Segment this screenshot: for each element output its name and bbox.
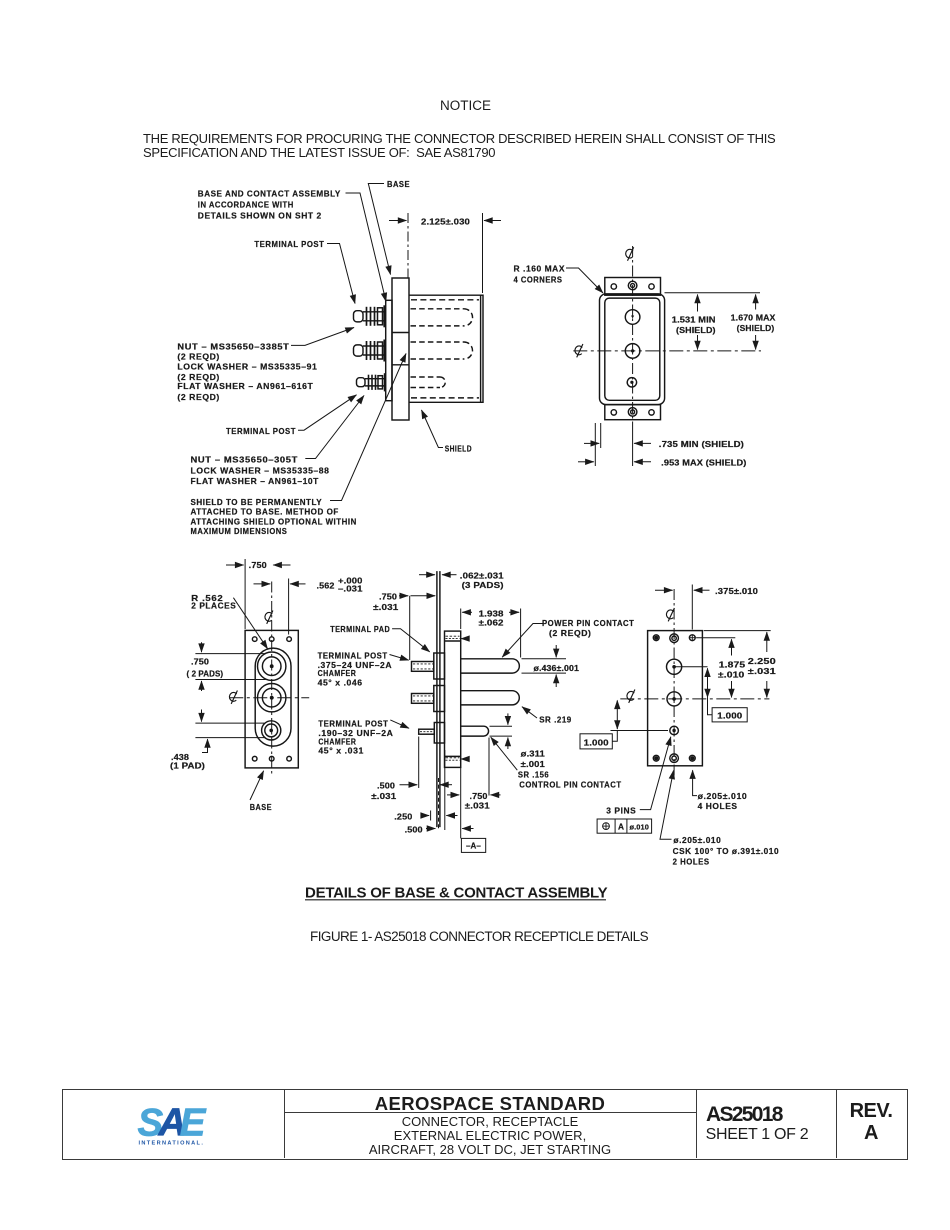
svg-text:SR .219: SR .219	[539, 715, 572, 725]
svg-text:.750: .750	[191, 656, 209, 666]
base plate (section, thin)	[436, 571, 438, 827]
leader power pin contact	[502, 624, 543, 658]
AS25018 cell	[706, 1103, 782, 1127]
dim ø.311	[490, 713, 513, 749]
svg-text:E: E	[180, 1101, 207, 1144]
leader terminal pad	[392, 629, 430, 652]
terminal post 2 stub (threaded)	[412, 694, 434, 704]
svg-text:MAXIMUM DIMENSIONS: MAXIMUM DIMENSIONS	[191, 526, 288, 536]
dim .750 top (base view)	[226, 559, 291, 629]
leader: BASE	[368, 184, 390, 275]
svg-text:–A–: –A–	[466, 840, 481, 850]
dim 1.000 left (boxed)	[580, 700, 668, 748]
svg-text:ø.205±.010: ø.205±.010	[673, 835, 721, 845]
control pin contact	[461, 726, 489, 736]
dim .500 (bottom)	[426, 828, 474, 830]
ear top	[605, 278, 661, 296]
svg-text:±.031: ±.031	[373, 602, 399, 612]
svg-text:.375±.010: .375±.010	[715, 586, 758, 596]
leader terminal post .190	[390, 720, 409, 728]
power pin contact 1	[461, 659, 520, 673]
svg-text:.953 MAX (SHIELD): .953 MAX (SHIELD)	[661, 458, 746, 468]
dim .250	[421, 750, 458, 830]
svg-text:ø.311: ø.311	[521, 748, 546, 758]
CL symbol left (back view)	[627, 690, 635, 703]
back pin 2	[667, 692, 681, 706]
svg-text:CONTROL PIN CONTACT: CONTROL PIN CONTACT	[519, 780, 621, 790]
svg-text:.250: .250	[394, 812, 412, 822]
pad circle 2	[258, 684, 286, 712]
dim .062 (3 pads)	[419, 574, 457, 576]
svg-text:A: A	[618, 822, 624, 832]
svg-text:FLAT WASHER – AN961–616T: FLAT WASHER – AN961–616T	[177, 381, 313, 391]
svg-text:ATTACHING SHIELD OPTIONAL WITH: ATTACHING SHIELD OPTIONAL WITHIN	[191, 517, 357, 527]
leader: terminal post (top)	[327, 244, 355, 304]
centerlines front view	[573, 246, 761, 431]
svg-text:BASE: BASE	[387, 179, 410, 189]
dim .750 ±.031 (bottom mid)	[447, 738, 501, 796]
svg-text:CSK 100° TO ø.391±.010: CSK 100° TO ø.391±.010	[673, 846, 780, 856]
CL symbol left (front view)	[575, 344, 583, 357]
svg-text:LOCK WASHER – MS35335–91: LOCK WASHER – MS35335–91	[177, 361, 317, 371]
svg-text:BASE AND CONTACT ASSEMBLY: BASE AND CONTACT ASSEMBLY	[198, 188, 341, 198]
leader R .562	[233, 598, 267, 649]
dim 1.938	[461, 609, 521, 658]
dim .562 (base view)	[254, 579, 306, 635]
base plate front	[245, 630, 298, 768]
rule under AEROSPACE STANDARD	[285, 1112, 696, 1113]
title block divider 2	[696, 1089, 697, 1158]
leader terminal post .375	[390, 655, 409, 661]
svg-text:ø.205±.010: ø.205±.010	[698, 791, 748, 801]
svg-text:1.531 MIN: 1.531 MIN	[672, 315, 716, 325]
svg-text:ø.436±.001: ø.436±.001	[534, 663, 580, 673]
centerlines back view	[620, 589, 769, 777]
datum A box	[461, 767, 486, 852]
svg-text:(2 REQD): (2 REQD)	[177, 351, 220, 361]
contact assembly strip	[386, 300, 392, 400]
pin 1 front	[625, 310, 640, 325]
back pin 1	[667, 659, 682, 674]
svg-text:(2 REQD): (2 REQD)	[549, 628, 592, 638]
pad circle 1	[258, 652, 286, 680]
svg-text:.735 MIN (SHIELD): .735 MIN (SHIELD)	[659, 439, 744, 449]
shield slot 3 (dashed)	[411, 377, 446, 388]
svg-text:FLAT WASHER – AN961–10T: FLAT WASHER – AN961–10T	[191, 476, 319, 486]
svg-text:.750: .750	[249, 560, 267, 570]
terminal post 2 (bolt, side view)	[354, 340, 387, 362]
svg-text:LOCK WASHER – MS35335–88: LOCK WASHER – MS35335–88	[191, 465, 330, 475]
notice paragraph	[143, 132, 775, 161]
leader SR .156 control pin	[491, 737, 518, 770]
insulator block	[445, 631, 461, 767]
svg-text:(1 PAD): (1 PAD)	[170, 761, 205, 771]
svg-text:2.125±.030: 2.125±.030	[421, 217, 470, 227]
svg-text:4 CORNERS: 4 CORNERS	[514, 275, 563, 285]
AEROSPACE STANDARD	[284, 1093, 696, 1115]
svg-text:IN ACCORDANCE WITH: IN ACCORDANCE WITH	[198, 199, 294, 209]
terminal post 1 stub (threaded)	[412, 662, 434, 672]
svg-text:±.031: ±.031	[465, 800, 490, 810]
leader: nut 3385T block	[291, 328, 354, 346]
svg-text:DETAILS OF BASE & CONTACT ASSE: DETAILS OF BASE & CONTACT ASSEMBLY	[305, 884, 608, 901]
svg-text:NUT – MS35650–305T: NUT – MS35650–305T	[191, 455, 298, 465]
svg-text:( 2 PADS): ( 2 PADS)	[187, 669, 224, 679]
svg-text:45° x .046: 45° x .046	[318, 678, 363, 688]
power pin contact 2	[461, 691, 520, 705]
terminal post 1 (bolt, side view)	[354, 305, 387, 327]
dim ø.436	[522, 645, 567, 687]
leader: terminal post (bottom)	[298, 395, 357, 430]
CL symbol top (front view)	[626, 247, 634, 260]
NOTICE heading	[440, 98, 491, 113]
dim 2.250	[704, 631, 771, 698]
svg-text:SHIELD: SHIELD	[445, 443, 472, 453]
feature control frame	[597, 819, 652, 833]
svg-text:SR .156: SR .156	[518, 769, 549, 779]
svg-text:4 HOLES: 4 HOLES	[698, 801, 738, 811]
terminal pad 2	[434, 686, 445, 712]
shield front outline	[600, 294, 665, 405]
dim .500 ±.031 (left)	[400, 737, 453, 789]
terminal post 3 (bolt, side view, smaller)	[357, 373, 387, 391]
leader ø.205 4 holes	[693, 770, 697, 795]
back plate	[648, 631, 703, 766]
svg-text:1.875: 1.875	[719, 659, 746, 669]
back pin 3	[670, 726, 679, 735]
svg-text:TERMINAL PAD: TERMINAL PAD	[330, 624, 390, 634]
svg-text:(SHIELD): (SHIELD)	[676, 325, 716, 335]
svg-text:.500: .500	[377, 780, 395, 790]
svg-text:SHIELD TO BE PERMANENTLY: SHIELD TO BE PERMANENTLY	[191, 497, 323, 507]
leader: R .160 MAX	[566, 268, 603, 293]
dimension 2.125±.030	[389, 213, 501, 293]
CL symbol left (base view)	[229, 691, 237, 704]
svg-text:.500: .500	[405, 824, 423, 834]
ear bottom	[605, 405, 661, 420]
svg-text:INTERNATIONAL.: INTERNATIONAL.	[139, 1141, 205, 1147]
shield slot 2 (dashed)	[411, 342, 473, 359]
base holes bottom row	[252, 756, 257, 761]
base holes top row	[252, 637, 257, 642]
svg-text:–.031: –.031	[338, 584, 363, 594]
dim 1.000 right (boxed)	[674, 667, 747, 722]
dim .735 / .953 extension lines	[578, 423, 651, 466]
title block divider 1	[284, 1089, 285, 1158]
svg-text:1.670 MAX: 1.670 MAX	[731, 313, 776, 323]
svg-text:3 PINS: 3 PINS	[606, 806, 636, 816]
svg-text:NUT – MS35650–3385T: NUT – MS35650–3385T	[177, 342, 289, 352]
svg-text:(2 REQD): (2 REQD)	[177, 392, 220, 402]
dim 1.531 / 1.670	[665, 293, 761, 350]
dim 1.875	[696, 638, 735, 698]
ear screws	[628, 281, 637, 290]
svg-text:BASE: BASE	[250, 802, 272, 812]
leader: shield label	[422, 410, 444, 448]
svg-text:.750: .750	[379, 592, 397, 602]
dim .375	[655, 585, 710, 630]
terminal post 3 stub (threaded)	[419, 729, 435, 734]
svg-text:TERMINAL POST: TERMINAL POST	[226, 426, 296, 436]
svg-text:ø.010: ø.010	[630, 823, 649, 832]
svg-text:±.010: ±.010	[718, 669, 745, 679]
shield slot 1 (dashed)	[411, 309, 473, 326]
stadium boss	[255, 648, 291, 746]
dim .750 (2 pads)	[195, 642, 265, 691]
base plate (side view)	[392, 278, 409, 420]
CL symbol top (base view)	[265, 611, 273, 624]
back screws bottom	[670, 754, 679, 763]
leader BASE (lower view)	[250, 771, 264, 800]
svg-text:ATTACHED TO BASE. METHOD OF: ATTACHED TO BASE. METHOD OF	[191, 507, 339, 517]
terminal pad 3	[434, 723, 444, 744]
REV cell	[836, 1100, 906, 1144]
svg-text:POWER PIN CONTACT: POWER PIN CONTACT	[542, 618, 634, 628]
svg-text:±.031: ±.031	[748, 666, 776, 676]
leader: shield attach note	[330, 354, 406, 501]
svg-text:1.000: 1.000	[717, 711, 742, 721]
hatched screw bottom	[446, 758, 467, 760]
figure caption	[310, 929, 648, 944]
svg-text:R .160 MAX: R .160 MAX	[514, 264, 566, 274]
ear holes	[611, 284, 616, 289]
svg-text:.562: .562	[317, 581, 335, 591]
pin 2 front	[625, 344, 640, 359]
svg-text:2.250: 2.250	[748, 656, 776, 666]
terminal pad 1	[434, 653, 445, 679]
dim .750 top (section)	[399, 596, 435, 660]
centerlines base view	[229, 582, 309, 777]
hatched screw top	[446, 636, 467, 638]
CL symbol top (back view)	[666, 608, 674, 621]
svg-text:DETAILS SHOWN ON SHT 2: DETAILS SHOWN ON SHT 2	[198, 210, 322, 220]
leader SR .219	[522, 707, 537, 718]
leader: nut 305T block	[305, 396, 364, 459]
svg-text:±.031: ±.031	[371, 791, 396, 801]
svg-text:1.000: 1.000	[584, 738, 609, 748]
svg-text:±.001: ±.001	[521, 759, 546, 769]
leader 3 pins	[640, 737, 671, 810]
svg-text:TERMINAL POST: TERMINAL POST	[254, 239, 324, 249]
dim .438 (1 pad)	[195, 710, 264, 753]
back screws top	[670, 634, 679, 643]
pad circle 3	[262, 721, 281, 740]
svg-text:2 PLACES: 2 PLACES	[191, 601, 236, 611]
svg-text:45° x .031: 45° x .031	[318, 746, 364, 756]
svg-text:(SHIELD): (SHIELD)	[737, 323, 775, 333]
svg-text:2 HOLES: 2 HOLES	[673, 856, 710, 866]
SAE logo	[132, 1100, 222, 1150]
svg-text:(3 PADS): (3 PADS)	[462, 580, 504, 590]
leader ø.205 csk	[660, 771, 674, 840]
leader: base and contact assembly	[346, 193, 387, 302]
title block divider 3	[836, 1089, 837, 1158]
shield (side view)	[409, 295, 483, 402]
pin 3 front	[627, 378, 636, 387]
svg-text:.062±.031: .062±.031	[460, 571, 504, 581]
svg-text:±.062: ±.062	[479, 617, 504, 627]
